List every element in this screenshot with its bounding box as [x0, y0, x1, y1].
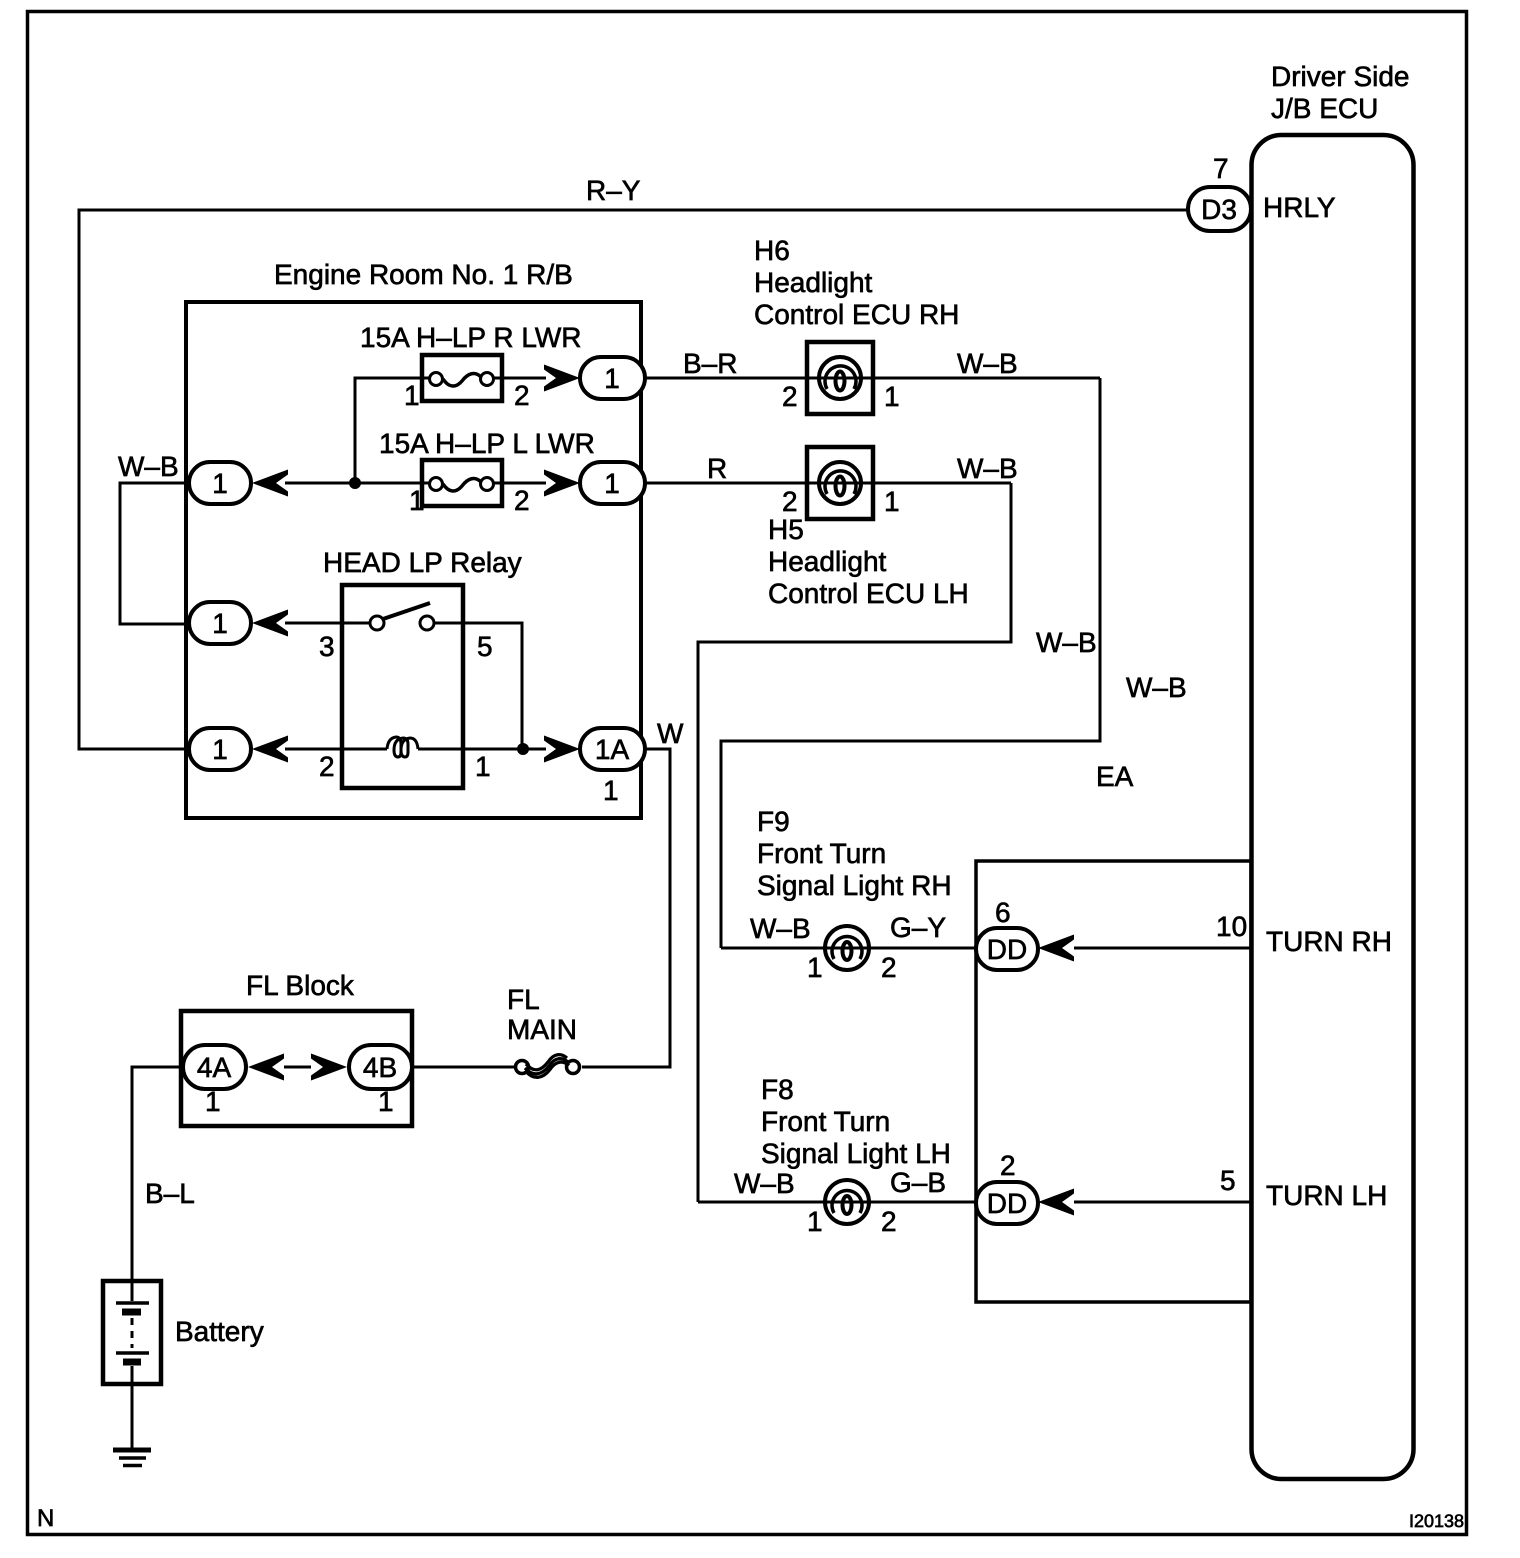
wire fuse feed vertical from junction to fuse 1	[355, 378, 430, 483]
arrow male right FL	[311, 1054, 347, 1081]
svg-text:N: N	[37, 1505, 54, 1532]
svg-text:B–L: B–L	[145, 1178, 195, 1209]
svg-text:H5: H5	[768, 514, 804, 545]
wire W-B from H6 down to EA run	[721, 378, 1100, 948]
svg-text:W–B: W–B	[750, 913, 811, 944]
svg-text:4A: 4A	[197, 1052, 232, 1083]
svg-text:2: 2	[782, 381, 798, 412]
relay switch blade	[383, 603, 430, 619]
svg-text:Control ECU LH: Control ECU LH	[768, 578, 969, 609]
svg-text:2: 2	[514, 380, 530, 411]
svg-text:G–B: G–B	[890, 1167, 946, 1198]
relay HEAD LP box	[342, 585, 463, 788]
wire W-B from H5 down to F8	[698, 483, 1011, 1202]
svg-text:15A H–LP R LWR: 15A H–LP R LWR	[360, 322, 582, 353]
svg-text:DD: DD	[987, 1188, 1027, 1219]
arrow female left row2	[252, 470, 288, 497]
svg-text:1: 1	[807, 1206, 823, 1237]
arrow male right row2	[544, 470, 580, 497]
wire B-R to H6	[645, 377, 1100, 380]
svg-text:1: 1	[212, 608, 228, 639]
wire battery to 4A	[132, 1067, 183, 1281]
svg-text:2: 2	[881, 1206, 897, 1237]
svg-text:2: 2	[1000, 1150, 1016, 1181]
connector D3	[1188, 187, 1251, 231]
svg-text:D3: D3	[1201, 194, 1237, 225]
connector 1A	[580, 728, 645, 770]
svg-text:1: 1	[378, 1086, 394, 1117]
connector 1 (fuse1 out)	[580, 357, 645, 399]
wire row2 to fuse2	[285, 482, 430, 485]
connector 1 (W-B left)	[189, 462, 251, 504]
arrow male right coil row	[544, 736, 580, 763]
wire fuse1 to connector	[493, 377, 546, 380]
svg-text:Headlight: Headlight	[768, 546, 887, 577]
svg-text:2: 2	[782, 486, 798, 517]
svg-text:B–R: B–R	[683, 348, 737, 379]
lamp F9 front turn signal light RH	[825, 926, 869, 970]
arrow female left coil row	[252, 736, 288, 763]
svg-text:W–B: W–B	[1036, 627, 1097, 658]
wire F8 row	[698, 1201, 976, 1204]
svg-text:1: 1	[604, 363, 620, 394]
ground	[113, 1450, 151, 1466]
svg-text:6: 6	[995, 897, 1011, 928]
wire relay contact row	[285, 622, 371, 625]
svg-text:W: W	[657, 718, 684, 749]
arrow female left row3	[252, 610, 288, 637]
svg-text:1: 1	[884, 486, 900, 517]
svg-text:EA: EA	[1096, 761, 1134, 792]
wire R to H5	[645, 482, 1011, 485]
svg-text:Driver Side: Driver Side	[1271, 61, 1409, 92]
svg-text:1: 1	[807, 952, 823, 983]
arrow female left DD LH	[1038, 1189, 1074, 1216]
connector 4B	[349, 1045, 412, 1089]
wire between FL arrows	[284, 1066, 311, 1069]
wire from contact 5 down to coil row	[434, 623, 522, 749]
svg-text:Front Turn: Front Turn	[757, 838, 886, 869]
connector DD (turn RH)	[976, 928, 1038, 970]
svg-text:I20138: I20138	[1409, 1511, 1464, 1531]
svg-text:4B: 4B	[363, 1052, 397, 1083]
connector DD (turn LH)	[976, 1182, 1038, 1224]
svg-text:W–B: W–B	[734, 1168, 795, 1199]
fuse 15A H-LP R LWR	[422, 355, 502, 401]
svg-text:2: 2	[881, 952, 897, 983]
svg-text:15A H–LP L LWR: 15A H–LP L LWR	[379, 428, 595, 459]
connector 1 (relay coil row)	[189, 728, 251, 770]
svg-text:2: 2	[514, 485, 530, 516]
svg-text:1: 1	[212, 468, 228, 499]
svg-text:R–Y: R–Y	[586, 175, 641, 206]
svg-text:MAIN: MAIN	[507, 1014, 577, 1045]
fuse 15A H-LP L LWR	[422, 460, 502, 506]
svg-text:1: 1	[884, 381, 900, 412]
arrow female left DD RH	[1038, 935, 1074, 962]
svg-text:F9: F9	[757, 806, 790, 837]
svg-text:Control ECU RH: Control ECU RH	[754, 299, 959, 330]
svg-text:1: 1	[404, 380, 420, 411]
wire turn LH to J/B	[1074, 1201, 1251, 1204]
svg-text:1A: 1A	[595, 734, 630, 765]
connector 1 (fuse2 out)	[580, 462, 645, 504]
svg-text:5: 5	[1220, 1165, 1236, 1196]
H5 headlight control ECU LH box with bulb	[807, 447, 873, 519]
FL Block box	[181, 1011, 412, 1126]
svg-text:5: 5	[477, 631, 493, 662]
svg-text:1: 1	[604, 468, 620, 499]
H6 headlight control ECU RH box with bulb	[807, 342, 873, 414]
svg-text:J/B ECU: J/B ECU	[1271, 93, 1378, 124]
svg-text:W–B: W–B	[118, 451, 179, 482]
svg-text:W–B: W–B	[1126, 672, 1187, 703]
wire F9 row	[721, 947, 976, 950]
wire R-Y from HRLY D3 to left side	[79, 210, 1188, 749]
svg-text:7: 7	[1213, 153, 1229, 184]
junction dot coil row	[517, 743, 529, 755]
connector 1 (relay contact row)	[189, 602, 251, 644]
svg-text:FL: FL	[507, 984, 540, 1015]
relay contact circles	[370, 616, 384, 630]
svg-text:TURN LH: TURN LH	[1266, 1180, 1387, 1211]
svg-text:Headlight: Headlight	[754, 267, 873, 298]
svg-text:1: 1	[603, 775, 619, 806]
wire coil row left	[285, 748, 387, 751]
svg-text:TURN RH: TURN RH	[1266, 926, 1392, 957]
svg-text:3: 3	[319, 631, 335, 662]
svg-text:Signal Light LH: Signal Light LH	[761, 1138, 951, 1169]
svg-text:1: 1	[409, 485, 425, 516]
svg-text:Battery: Battery	[175, 1316, 264, 1347]
fusible link FL MAIN	[516, 1055, 580, 1078]
svg-text:G–Y: G–Y	[890, 912, 946, 943]
svg-text:1: 1	[475, 751, 491, 782]
svg-text:1: 1	[212, 734, 228, 765]
battery	[103, 1281, 161, 1384]
wire battery to ground	[131, 1384, 134, 1448]
svg-text:W–B: W–B	[957, 348, 1018, 379]
svg-text:Engine Room No. 1 R/B: Engine Room No. 1 R/B	[274, 259, 573, 290]
svg-text:F8: F8	[761, 1074, 794, 1105]
Driver Side J/B ECU block	[1252, 135, 1414, 1479]
svg-text:FL Block: FL Block	[246, 970, 355, 1001]
arrow female left FL	[248, 1054, 284, 1081]
svg-text:2: 2	[319, 751, 335, 782]
TURN block box	[976, 861, 1251, 1302]
svg-text:W–B: W–B	[957, 453, 1018, 484]
relay coil	[387, 737, 418, 757]
wire W-B left loop down to relay contact connector	[120, 483, 189, 624]
svg-text:Front Turn: Front Turn	[761, 1106, 890, 1137]
svg-text:HRLY: HRLY	[1263, 192, 1336, 223]
svg-text:R: R	[707, 453, 727, 484]
connector 4A	[183, 1045, 246, 1089]
lamp F8 front turn signal light LH	[825, 1180, 869, 1224]
svg-text:DD: DD	[987, 934, 1027, 965]
junction dot fuse feed	[349, 477, 361, 489]
svg-text:10: 10	[1216, 911, 1247, 942]
wire 4B to FL MAIN	[412, 1066, 516, 1069]
wire turn RH to J/B	[1074, 947, 1251, 950]
wire coil row right	[418, 748, 546, 751]
wire W from 1A down to FL MAIN	[582, 749, 670, 1067]
svg-text:Signal Light RH: Signal Light RH	[757, 870, 952, 901]
svg-text:H6: H6	[754, 235, 790, 266]
wire fuse2 to connector	[493, 482, 546, 485]
svg-text:1: 1	[205, 1086, 221, 1117]
svg-text:HEAD LP Relay: HEAD LP Relay	[323, 547, 522, 578]
arrow male right row1	[544, 365, 580, 392]
